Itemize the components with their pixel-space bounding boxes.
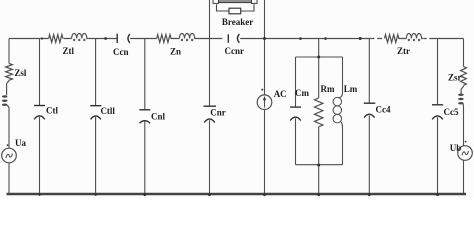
svg-text:Cc4: Cc4 — [376, 105, 391, 115]
svg-text:Zsl: Zsl — [14, 68, 27, 78]
svg-text:Ctl: Ctl — [46, 106, 58, 116]
svg-text:Ub: Ub — [450, 143, 462, 153]
svg-text:Ua: Ua — [15, 138, 26, 148]
svg-text:Breaker: Breaker — [222, 17, 253, 27]
svg-text:Ccn: Ccn — [113, 47, 129, 57]
svg-text:Zn: Zn — [170, 46, 181, 56]
svg-text:Lm: Lm — [344, 84, 358, 94]
svg-text:Cc5: Cc5 — [444, 107, 459, 117]
svg-text:Cnr: Cnr — [210, 108, 226, 118]
svg-text:Cnl: Cnl — [151, 111, 166, 121]
svg-text:Rm: Rm — [321, 84, 335, 94]
svg-text:Zsr: Zsr — [448, 73, 462, 83]
svg-text:AC: AC — [274, 89, 287, 99]
svg-text:Ctll: Ctll — [100, 106, 115, 116]
svg-text:Ccnr: Ccnr — [225, 46, 245, 56]
svg-text:Ztr: Ztr — [397, 46, 410, 56]
svg-text:Ztl: Ztl — [62, 46, 74, 56]
svg-text:Cm: Cm — [295, 88, 309, 98]
